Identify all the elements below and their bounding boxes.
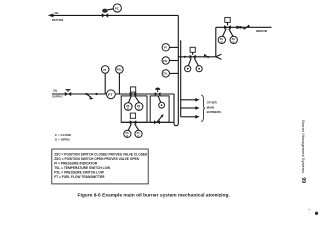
svg-text:Figure 8-5 Example main oil bu: Figure 8-5 Example main oil burner syste… <box>78 192 231 198</box>
legend box <box>52 149 148 184</box>
wire medium branch to burner <box>178 56 216 58</box>
switch bubble (motor valve) <box>159 102 165 108</box>
instrument PC bubble <box>113 4 121 12</box>
svg-text:TSL: TSL <box>163 73 168 76</box>
svg-text:OTHER: OTHER <box>207 101 218 105</box>
node OTHER MAIN BURNERS label <box>207 101 221 115</box>
svg-text:PI = PRESSURE INDICATOR: PI = PRESSURE INDICATOR <box>54 162 98 166</box>
solenoid valve SSV branch with square actuator <box>190 47 196 59</box>
svg-text:ZSC = POSITION SWITCH CLOSED P: ZSC = POSITION SWITCH CLOSED PROVES VALV… <box>54 153 148 157</box>
valve (globe) on medium line <box>242 25 248 29</box>
wire burner branch arrow 2 <box>181 106 200 110</box>
enclosure box 1 (main safety shutoff valves) <box>121 96 147 122</box>
svg-text:TSL = TEMPERATURE SWITCH LOW: TSL = TEMPERATURE SWITCH LOW <box>54 166 111 170</box>
switch ZSC2 bubble <box>135 130 142 138</box>
switch ZSO2 bubble <box>124 130 131 138</box>
wire oil return line <box>48 14 179 18</box>
svg-text:99: 99 <box>300 177 306 183</box>
svg-text:PSL: PSL <box>163 60 168 63</box>
svg-text:BURNERS: BURNERS <box>207 110 221 114</box>
wire switch connectors <box>129 96 140 103</box>
solenoid valve SSV2 on lower line <box>130 113 137 124</box>
svg-text:FT: FT <box>108 93 112 97</box>
svg-text:C = CLOSE: C = CLOSE <box>55 133 71 137</box>
svg-text:PI: PI <box>164 46 167 50</box>
node junction dot <box>85 93 87 95</box>
wire oil supply line <box>52 93 174 95</box>
switch ZSO bubble (medium valve) <box>218 36 225 44</box>
wire burner branch arrow 1 <box>181 98 200 102</box>
wire lower return line <box>121 121 174 123</box>
instrument PSL bubble <box>116 66 124 74</box>
switch bubble right (branch valve) <box>196 66 202 72</box>
enclosure box 2 (burner valves) <box>150 96 169 122</box>
switch bubble left (branch valve) <box>185 66 191 72</box>
switch ZSC bubble (medium valve) <box>230 36 237 44</box>
switch ZSO1 bubble <box>124 103 132 111</box>
wire PSL stem <box>118 73 120 94</box>
svg-text:PSL = PRESSURE SWITCH LOW: PSL = PRESSURE SWITCH LOW <box>54 171 105 175</box>
instrument TSL header bubble <box>162 70 169 77</box>
svg-text:C: C <box>138 135 140 138</box>
ink speck artifact <box>309 209 310 210</box>
wire switch connectors <box>188 58 198 66</box>
wire PI header stem <box>170 46 179 48</box>
wire TSL header stem <box>170 72 179 74</box>
wire PI stem <box>104 73 106 94</box>
node junction dot on branch <box>184 56 186 58</box>
svg-text:Burner Management Systems: Burner Management Systems <box>301 120 306 173</box>
instrument PSL header bubble <box>162 57 169 64</box>
svg-text:PSL: PSL <box>117 69 122 72</box>
node burner connection open arrow <box>216 54 222 59</box>
svg-text:O: O <box>126 135 128 138</box>
node junction dot <box>95 93 97 95</box>
wire burner branch arrow 3 <box>181 115 200 119</box>
hand valve on supply line <box>65 90 71 96</box>
wire switch connectors <box>128 124 139 131</box>
node C/O legend <box>55 133 71 141</box>
dome valve on supply line in box 2 <box>155 88 161 96</box>
svg-text:ZSO = POSITION SWITCH OPEN PRO: ZSO = POSITION SWITCH OPEN PROVES VALVE … <box>54 157 139 161</box>
wire header line x180.7 <box>180 40 182 117</box>
wire PSL header stem <box>170 60 179 62</box>
wire connector to PC bubble <box>107 9 113 10</box>
node brace <box>201 95 205 122</box>
legend text <box>54 153 148 180</box>
solenoid valve SSV1 on supply line <box>130 87 137 96</box>
node OIL SUPPLY label <box>52 88 63 98</box>
node OIL RETURN label <box>52 11 63 22</box>
check valve on branch <box>205 54 209 58</box>
wire medium riser down <box>215 27 217 57</box>
wire supply-return U header (down at x174, U-turn, up at x178.3) <box>174 15 178 125</box>
wire switch connector <box>158 96 161 102</box>
solenoid valve SSV medium with square actuator <box>224 17 231 29</box>
svg-text:PI: PI <box>103 68 106 72</box>
svg-text:O = OPEN: O = OPEN <box>55 138 70 142</box>
valve PCV on return line <box>102 9 108 18</box>
wire atomizing medium line <box>216 26 272 28</box>
instrument FT bubble on supply line <box>107 90 116 99</box>
instrument PI bubble <box>101 66 109 74</box>
instrument PI header bubble <box>162 44 169 51</box>
switch ZSC1 bubble <box>135 103 143 111</box>
svg-text:FT = FUEL FLOW TRANSMITTER: FT = FUEL FLOW TRANSMITTER <box>54 175 105 179</box>
ink blob artifact <box>315 212 318 215</box>
strainer on supply line <box>87 94 93 99</box>
check valve on medium line <box>236 26 241 30</box>
lever valve on lower line in box 2 <box>154 114 164 124</box>
svg-text:MAIN: MAIN <box>207 105 214 109</box>
wire switch connectors <box>223 29 233 36</box>
